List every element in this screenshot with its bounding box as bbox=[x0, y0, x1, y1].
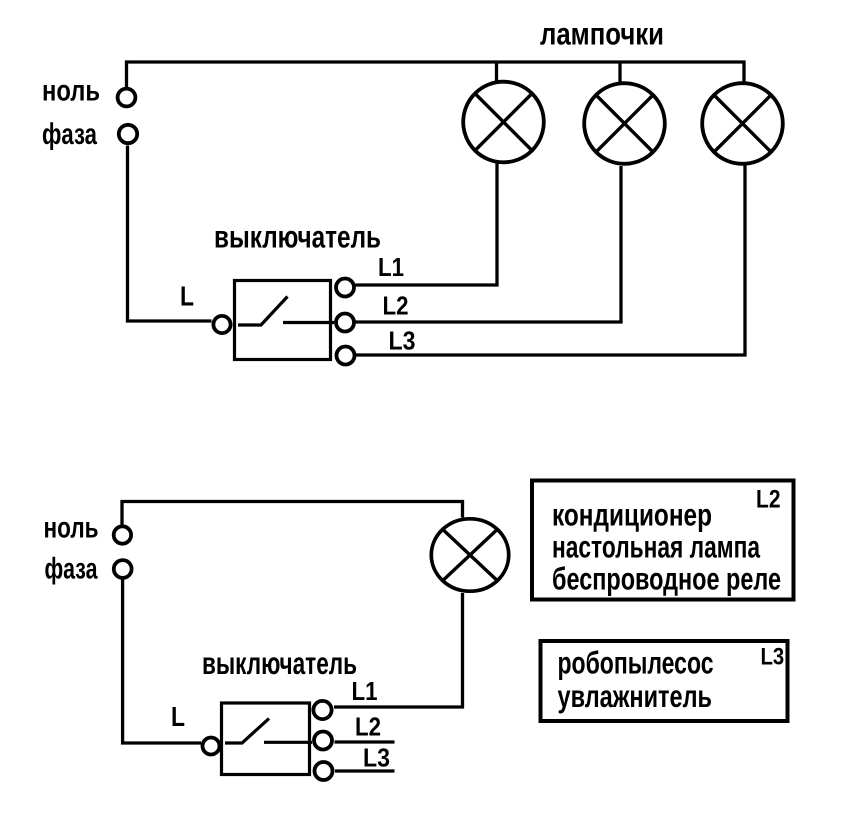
wire L2 stub (bottom) bbox=[335, 740, 395, 743]
wire фаза to switch L (bottom) bbox=[123, 580, 201, 744]
terminal фаза (bottom) bbox=[114, 560, 132, 578]
terminal фаза (top) bbox=[119, 125, 137, 143]
wire lamp1 top stub bbox=[495, 62, 498, 81]
svg-text:L3: L3 bbox=[389, 326, 416, 356]
wire lamp2 top stub bbox=[618, 62, 621, 82]
lamp 3 bbox=[702, 83, 783, 164]
terminal L (top switch) bbox=[213, 316, 230, 333]
terminal L3 (top) bbox=[337, 347, 355, 365]
svg-text:настольная лампа: настольная лампа bbox=[552, 529, 760, 565]
box L3 group bbox=[541, 641, 788, 721]
switch contact line (top) bbox=[283, 321, 334, 324]
wire top bus bbox=[127, 62, 745, 87]
svg-text:L3: L3 bbox=[363, 743, 390, 773]
svg-text:фаза: фаза bbox=[45, 553, 98, 586]
terminal L3 (bottom) bbox=[315, 762, 333, 780]
svg-text:беспроводное реле: беспроводное реле bbox=[552, 561, 781, 597]
svg-text:L2: L2 bbox=[756, 486, 781, 514]
svg-text:L1: L1 bbox=[378, 252, 404, 282]
svg-text:ноль: ноль bbox=[44, 512, 99, 545]
svg-text:L: L bbox=[171, 701, 185, 732]
svg-text:L1: L1 bbox=[352, 676, 378, 706]
svg-text:L: L bbox=[180, 281, 194, 312]
wire top bus (bottom circuit) bbox=[122, 502, 463, 525]
terminal L2 (bottom) bbox=[314, 732, 332, 750]
lamp (bottom) bbox=[431, 519, 508, 591]
svg-text:кондиционер: кондиционер bbox=[552, 497, 712, 533]
wire L2 to lamp2 bbox=[356, 166, 622, 322]
terminal L1 (bottom) bbox=[313, 701, 331, 719]
switch blade (top) bbox=[238, 297, 288, 326]
svg-text:L2: L2 bbox=[355, 712, 381, 742]
svg-text:выключатель: выключатель bbox=[202, 645, 357, 681]
terminal L2 (top) bbox=[336, 314, 354, 332]
switch box (top) bbox=[235, 281, 331, 360]
wire L3 to lamp3 bbox=[356, 166, 745, 356]
wire L1 to lamp (bottom) bbox=[334, 593, 463, 707]
terminal ноль (bottom) bbox=[114, 526, 131, 543]
terminal L (bottom switch) bbox=[203, 738, 220, 755]
wire L1 to lamp1 bbox=[356, 163, 498, 285]
switch blade (bottom) bbox=[225, 719, 269, 744]
wire L3 stub (bottom) bbox=[335, 769, 395, 772]
svg-text:выключатель: выключатель bbox=[214, 219, 381, 255]
svg-text:ноль: ноль bbox=[42, 75, 100, 108]
svg-text:L3: L3 bbox=[761, 644, 785, 671]
terminal ноль (top) bbox=[118, 89, 136, 107]
lamp 2 bbox=[584, 83, 665, 164]
svg-text:фаза: фаза bbox=[42, 118, 97, 151]
svg-text:увлажнитель: увлажнитель bbox=[558, 678, 713, 714]
svg-text:робопылесос: робопылесос bbox=[558, 645, 714, 681]
svg-text:L2: L2 bbox=[383, 291, 409, 321]
wire фаза to switch L bbox=[128, 146, 212, 322]
switch contact line (bottom) bbox=[264, 741, 312, 744]
box L2 group bbox=[532, 481, 794, 600]
lamp 1 bbox=[463, 82, 544, 163]
svg-text:лампочки: лампочки bbox=[540, 16, 664, 52]
switch box (bottom) bbox=[222, 703, 310, 775]
terminal L1 (top) bbox=[336, 279, 354, 297]
